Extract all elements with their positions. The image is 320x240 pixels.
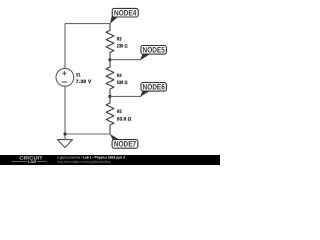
svg-text:a.gomezmartins / Lab 1 - Physi: a.gomezmartins / Lab 1 - Physics 1653 pa…: [57, 155, 125, 159]
svg-text:NODE5: NODE5: [143, 46, 166, 55]
ground: [57, 134, 72, 148]
svg-text:R5: R5: [117, 109, 122, 115]
resistor R5: [106, 96, 114, 134]
resistor R3: [106, 24, 114, 60]
wire left vertical lower (V1 bottom lead): [64, 86, 66, 134]
resistor R4: [106, 60, 114, 97]
label R3 value: [117, 36, 128, 49]
wire NODE6 tail: [110, 95, 141, 97]
node NODE6 flag: [140, 83, 166, 97]
svg-text:239 Ω: 239 Ω: [117, 44, 128, 50]
node NODE4 flag: [110, 8, 138, 24]
svg-text:LAB: LAB: [28, 160, 37, 164]
label R5 value: [117, 109, 132, 122]
svg-text:V1: V1: [76, 73, 81, 79]
svg-text:R3: R3: [117, 36, 122, 42]
junction dot node B (R4/R5): [108, 95, 111, 98]
svg-text:83.9 Ω: 83.9 Ω: [117, 116, 132, 122]
voltage source V1: [56, 68, 74, 86]
svg-text:NODE6: NODE6: [143, 83, 166, 92]
label V1 value: [76, 73, 92, 86]
wire NODE5 tail: [110, 59, 141, 61]
svg-text:7.39 V: 7.39 V: [76, 79, 92, 85]
CircuitLab logo: [12, 155, 47, 164]
svg-text:R4: R4: [117, 73, 122, 79]
svg-text:539 Ω: 539 Ω: [117, 80, 128, 86]
node NODE7 flag: [110, 134, 138, 149]
wire top horizontal from V1 top to resistor chain: [65, 23, 110, 25]
node NODE5 flag: [140, 46, 166, 61]
junction dot node A (R3/R4): [108, 58, 111, 61]
label R4 value: [117, 73, 128, 86]
wire left vertical upper (V1 top lead): [64, 24, 66, 69]
wire bottom horizontal: [65, 133, 110, 135]
footer bar: [0, 155, 220, 165]
junction dot node C (bottom left): [63, 132, 66, 135]
svg-text:NODE7: NODE7: [114, 140, 136, 149]
svg-text:NODE4: NODE4: [114, 9, 137, 18]
svg-text:http://circuitlab.com/c/g48bkd: http://circuitlab.com/c/g48bkdw9hq: [57, 160, 110, 164]
